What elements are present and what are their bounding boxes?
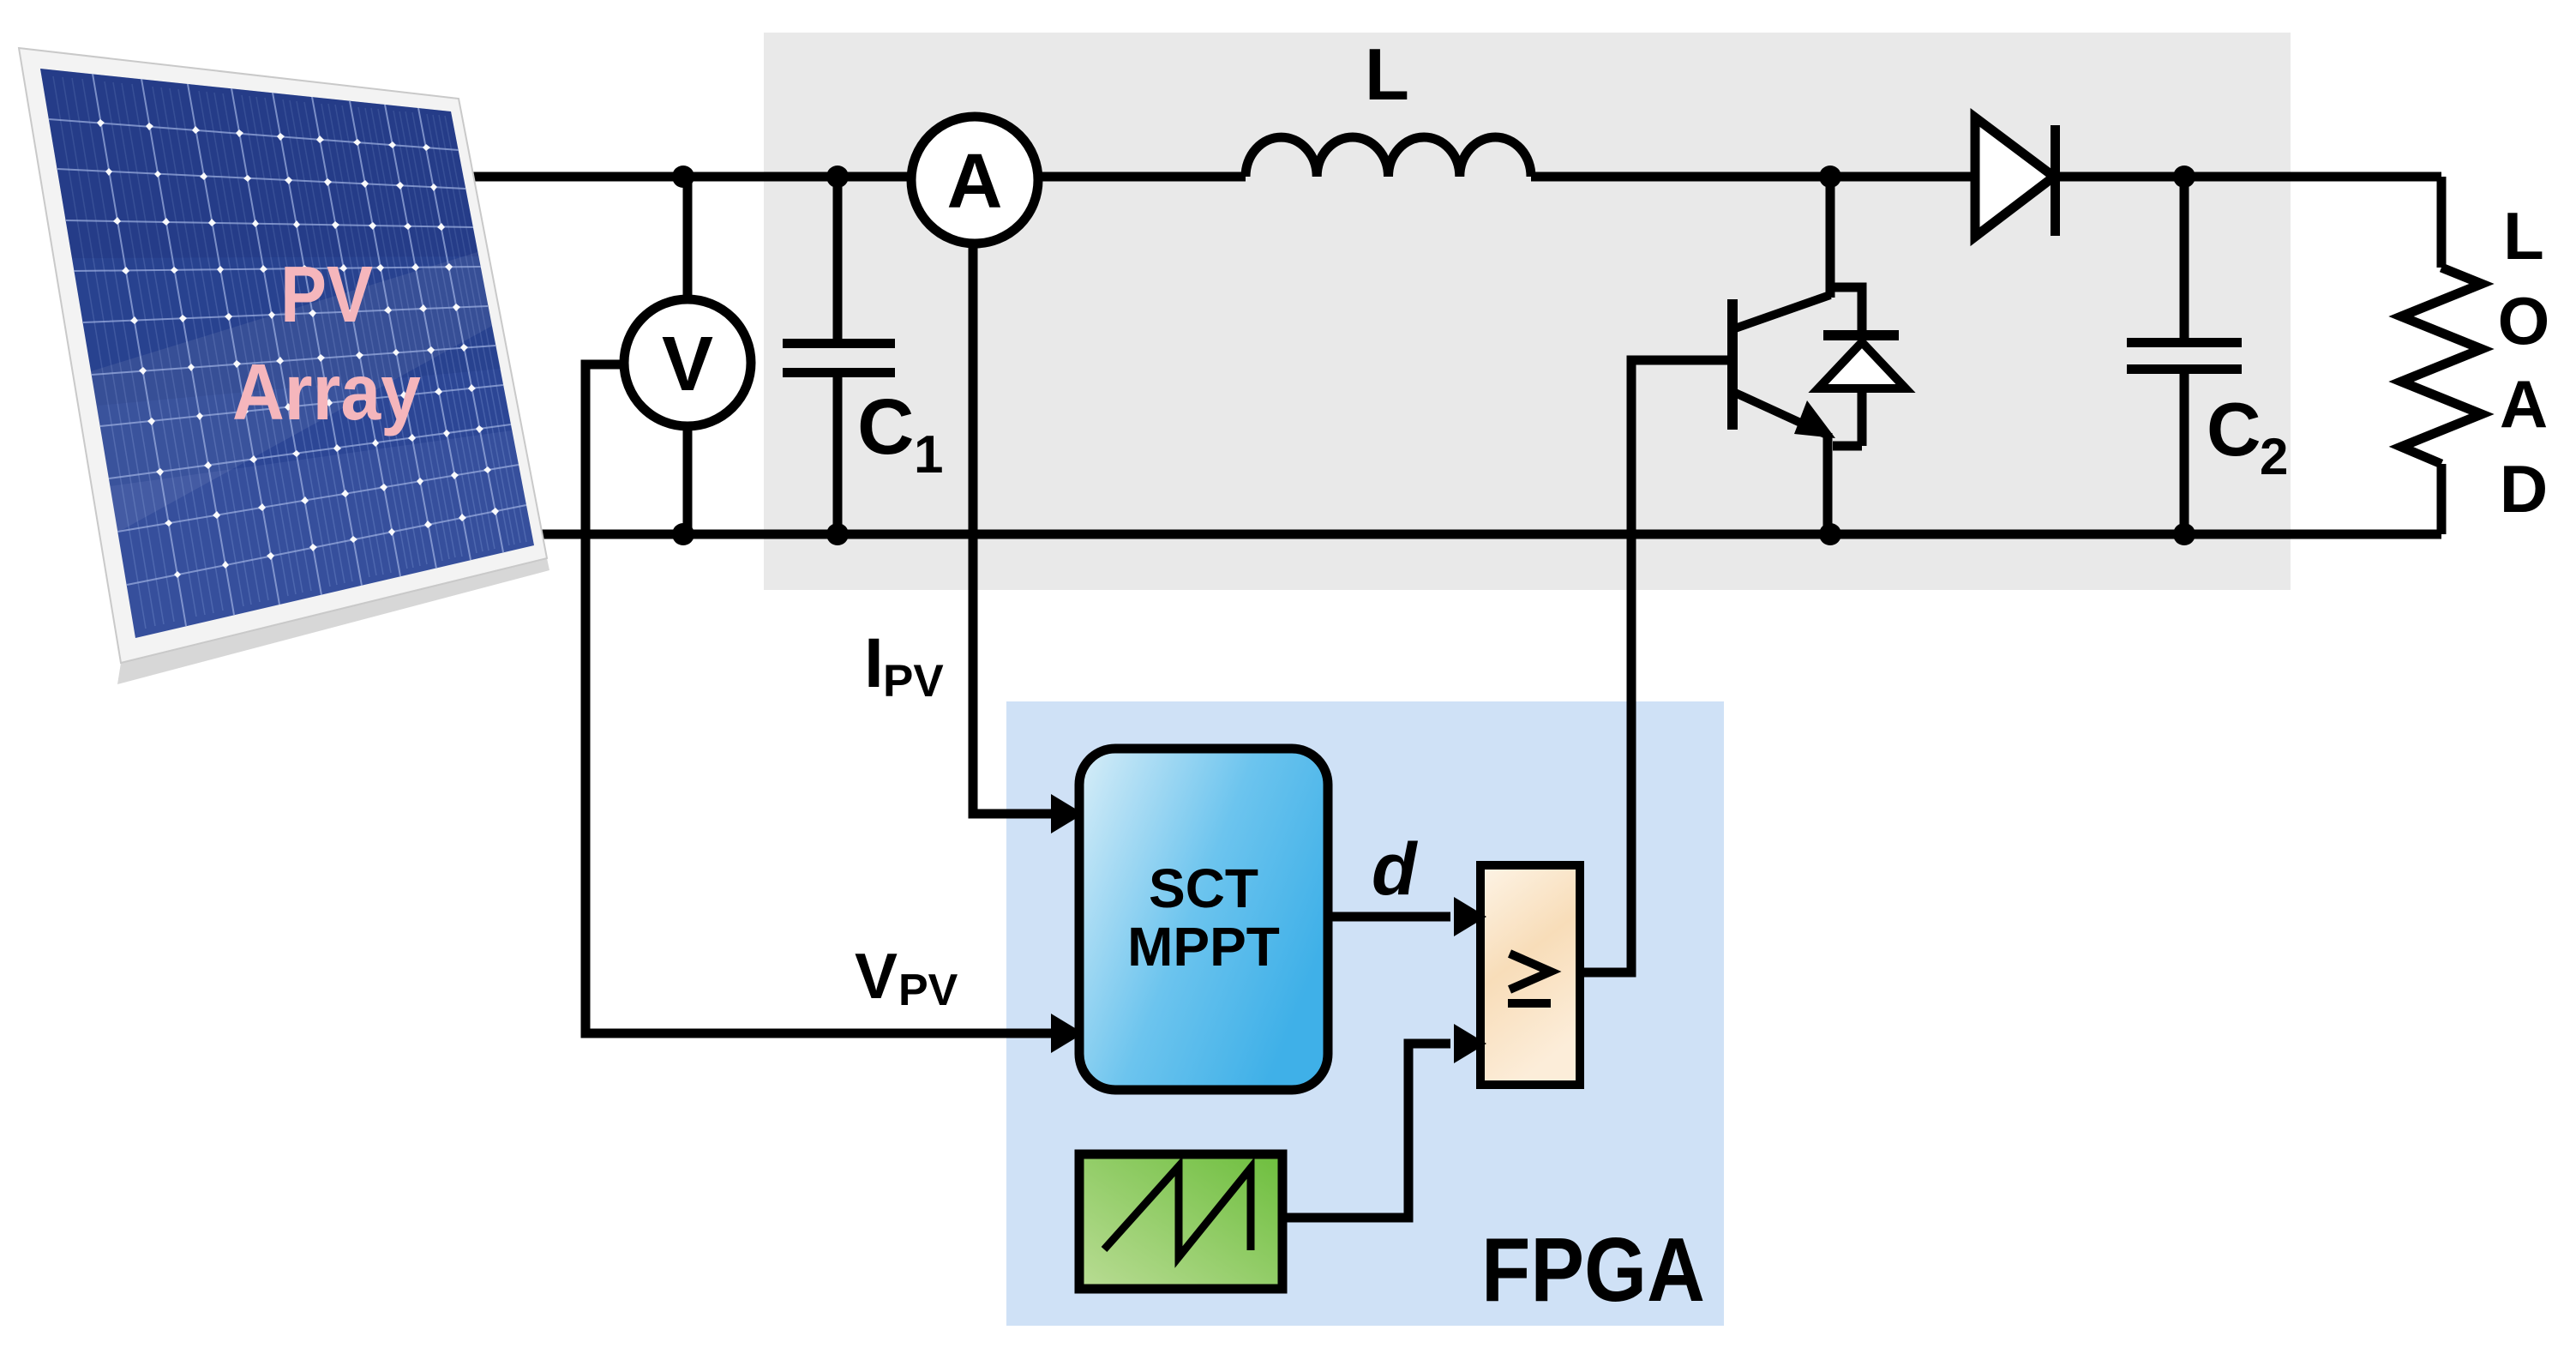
svg-text:d: d xyxy=(1372,828,1418,911)
wire top rail left segment xyxy=(446,172,1246,182)
junction C2 top node xyxy=(2173,165,2195,188)
svg-text:MPPT: MPPT xyxy=(1127,916,1280,978)
capacitor C1 xyxy=(833,177,843,534)
inductor L xyxy=(1246,137,1531,177)
anti-parallel diode D2 xyxy=(1818,330,1906,446)
junction voltmeter top node xyxy=(672,165,694,188)
svg-text:A: A xyxy=(2500,366,2548,442)
voltmeter V xyxy=(624,299,751,426)
comparator >= symbol xyxy=(1508,954,1551,1003)
FPGA background xyxy=(1006,701,1724,1326)
svg-text:2: 2 xyxy=(2260,428,2288,485)
svg-text:C: C xyxy=(2207,387,2261,472)
svg-text:O: O xyxy=(2498,283,2550,358)
junction voltmeter bottom node xyxy=(672,523,694,545)
svg-text:V: V xyxy=(662,322,713,407)
junction IGBT emitter node xyxy=(1819,523,1841,545)
PV array panel xyxy=(19,48,549,684)
junction C1 bottom node xyxy=(826,523,849,545)
svg-text:D: D xyxy=(2500,451,2548,527)
IGBT Q1 xyxy=(1727,295,1835,534)
IPV wire from ammeter xyxy=(973,242,1051,814)
svg-text:PV: PV xyxy=(883,656,944,707)
sawtooth generator xyxy=(1079,1154,1282,1289)
capacitor C2 xyxy=(2180,177,2189,534)
svg-text:L: L xyxy=(1365,34,1409,116)
svg-text:SCT: SCT xyxy=(1149,858,1258,919)
junction C1 top node xyxy=(826,165,849,188)
wire bottom rail xyxy=(514,530,2441,539)
wire load right verticals xyxy=(2437,177,2447,534)
label LOAD xyxy=(2498,198,2550,527)
svg-text:1: 1 xyxy=(914,425,943,484)
junction IGBT collector node xyxy=(1819,165,1841,188)
svg-text:Array: Array xyxy=(232,347,421,436)
ammeter A xyxy=(911,117,1038,244)
junction C2 bottom node xyxy=(2173,523,2195,545)
d signal wire xyxy=(1328,912,1450,922)
svg-text:V: V xyxy=(855,940,898,1012)
svg-text:PV: PV xyxy=(898,966,958,1015)
SCT MPPT block xyxy=(1079,749,1328,1090)
svg-text:FPGA: FPGA xyxy=(1481,1219,1705,1321)
svg-text:PV: PV xyxy=(280,250,373,339)
VPV tap wire xyxy=(585,364,1051,1033)
boost diode D1 xyxy=(1975,117,2060,237)
resistor LOAD zigzag xyxy=(2401,268,2482,464)
comparator block xyxy=(1480,865,1580,1085)
IGBT gate wire from comparator output xyxy=(1584,360,1728,972)
voltmeter leads xyxy=(683,177,693,534)
svg-text:A: A xyxy=(947,139,1003,225)
svg-text:L: L xyxy=(2503,198,2544,274)
IGBT Q1 collector wiring xyxy=(1830,177,1862,331)
svg-text:I: I xyxy=(864,624,884,702)
svg-text:C: C xyxy=(857,383,914,471)
sawtooth to comparator wire xyxy=(1282,1044,1450,1218)
converter gray background xyxy=(764,33,2291,590)
wire top rail right segment xyxy=(1531,172,2441,182)
